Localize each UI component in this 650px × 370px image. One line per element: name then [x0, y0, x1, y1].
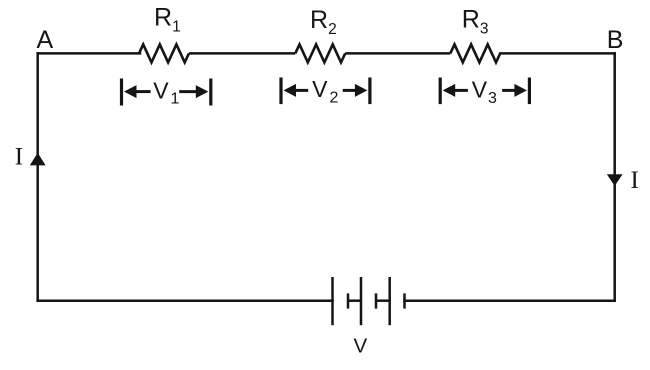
wire: bottom left segment to battery [38, 299, 333, 302]
svg-text:R1: R1 [154, 4, 181, 36]
resistor R1 [139, 44, 189, 62]
svg-text:I: I [15, 144, 23, 171]
svg-text:R2: R2 [310, 6, 337, 38]
current arrow I (downward) on right wire [607, 174, 623, 186]
svg-text:B: B [607, 26, 624, 54]
svg-text:R3: R3 [462, 6, 489, 38]
voltage marker V2 (dimension arrows under R2) [281, 76, 370, 107]
svg-text:V: V [353, 334, 367, 357]
wire: top segment R3 to node B [500, 52, 615, 55]
wire: left vertical (A down to bottom) [36, 53, 39, 300]
resistor R3 [450, 44, 500, 62]
svg-text:I: I [631, 167, 639, 194]
svg-text:A: A [37, 26, 54, 54]
wire: bottom right segment from battery [405, 299, 615, 302]
wire: top segment R1 to R2 [189, 52, 295, 55]
battery V (3 cells) [333, 277, 405, 325]
wire: top segment R2 to R3 [345, 52, 450, 55]
svg-text:V3: V3 [472, 77, 497, 108]
voltage marker V1 (dimension arrows under R1) [122, 78, 211, 108]
wire: right vertical (B down to bottom) [613, 53, 616, 300]
svg-text:V1: V1 [153, 78, 179, 108]
wire: top segment node A to R1 [38, 52, 140, 55]
svg-text:V2: V2 [312, 76, 338, 107]
resistor R2 [295, 44, 345, 62]
voltage marker V3 (dimension arrows under R3) [440, 77, 529, 108]
current arrow I (upward) on left wire [30, 153, 46, 166]
